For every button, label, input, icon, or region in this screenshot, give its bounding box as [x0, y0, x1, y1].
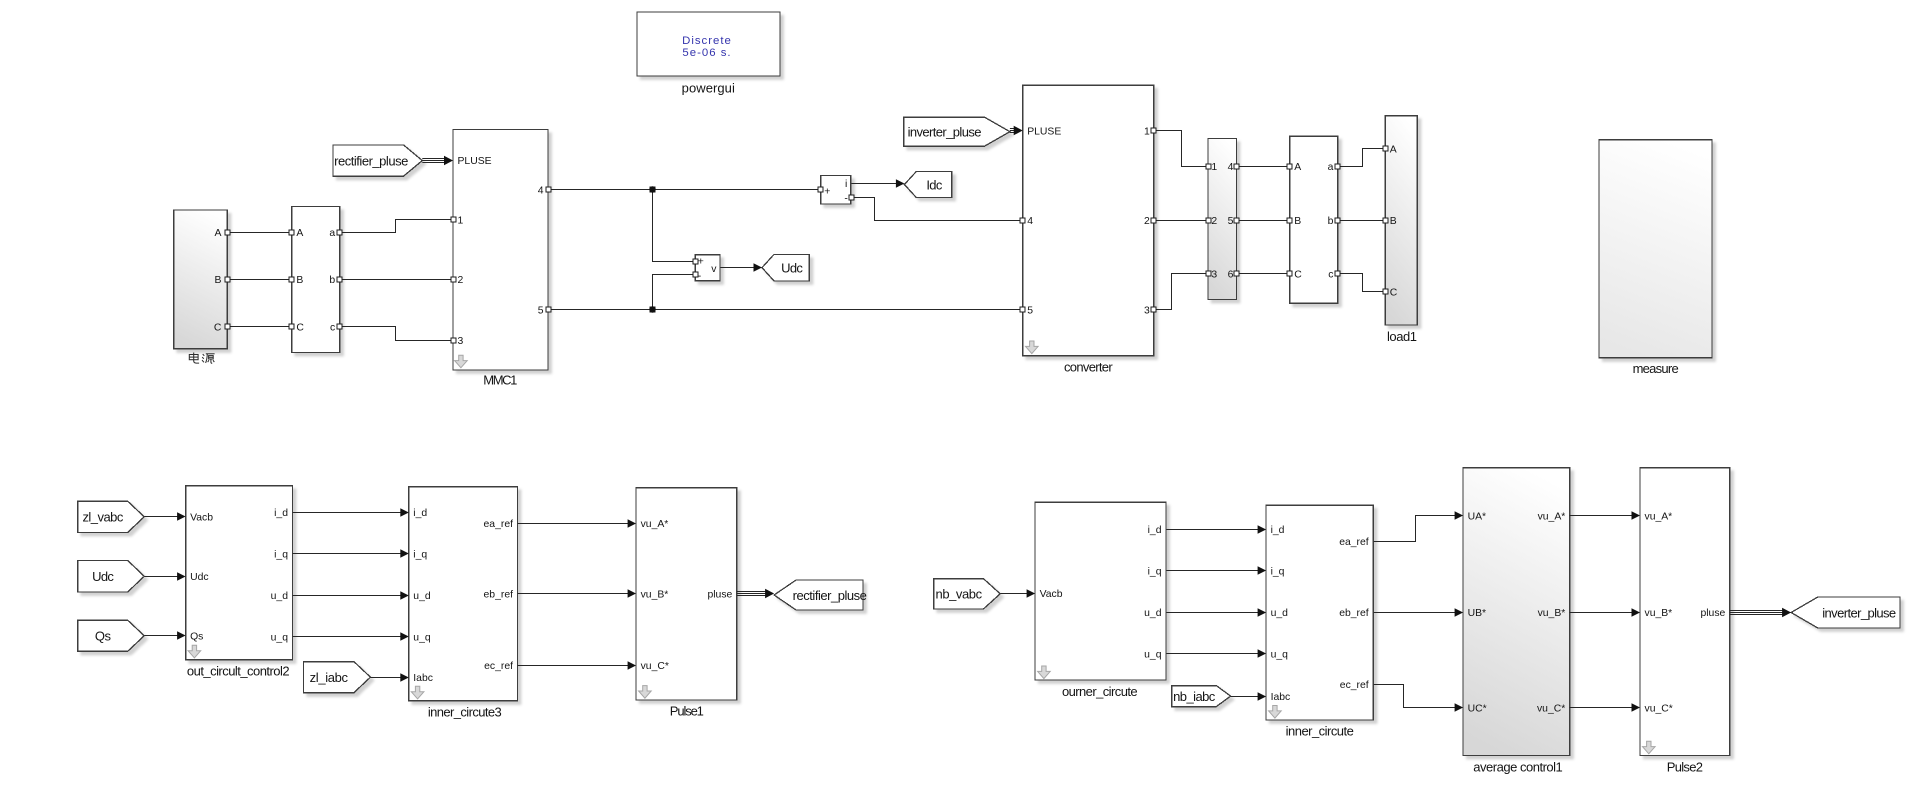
- svg-text:A: A: [1294, 162, 1301, 173]
- svg-text:vu_B*: vu_B*: [641, 590, 669, 601]
- svg-text:u_q: u_q: [271, 632, 289, 643]
- svg-text:C: C: [296, 322, 304, 333]
- svg-text:UA*: UA*: [1468, 511, 1486, 522]
- svg-text:A: A: [296, 228, 303, 239]
- svg-text:i_d: i_d: [1148, 525, 1162, 536]
- svg-text:C: C: [214, 322, 222, 333]
- svg-text:zl_iabc: zl_iabc: [310, 670, 349, 685]
- svg-text:C: C: [1294, 269, 1302, 280]
- svg-text:Iabc: Iabc: [1271, 692, 1291, 703]
- svg-text:PLUSE: PLUSE: [1027, 126, 1061, 137]
- svg-text:3: 3: [1144, 306, 1150, 317]
- svg-text:vu_C*: vu_C*: [1645, 703, 1673, 714]
- svg-text:nb_iabc: nb_iabc: [1173, 689, 1216, 704]
- svg-text:vu_C*: vu_C*: [641, 661, 669, 672]
- svg-text:5: 5: [1228, 216, 1234, 227]
- svg-text:2: 2: [1144, 216, 1150, 227]
- svg-text:i: i: [845, 179, 847, 190]
- svg-text:ourner_circute: ourner_circute: [1062, 684, 1137, 699]
- svg-text:Iabc: Iabc: [413, 673, 433, 684]
- svg-text:5: 5: [1027, 306, 1033, 317]
- svg-text:zl_vabc: zl_vabc: [82, 510, 123, 525]
- svg-text:powergui: powergui: [682, 80, 735, 95]
- svg-text:i_d: i_d: [274, 508, 288, 519]
- svg-text:MMC1: MMC1: [483, 372, 517, 387]
- svg-text:2: 2: [458, 275, 464, 286]
- svg-text:UB*: UB*: [1468, 608, 1486, 619]
- svg-text:v: v: [711, 264, 717, 275]
- svg-text:Qs: Qs: [95, 629, 112, 644]
- svg-text:ec_ref: ec_ref: [1340, 680, 1369, 691]
- svg-text:inner_circute: inner_circute: [1286, 724, 1354, 739]
- svg-text:vu_B*: vu_B*: [1538, 608, 1566, 619]
- svg-text:load1: load1: [1387, 329, 1417, 344]
- svg-text:6: 6: [1228, 269, 1234, 280]
- svg-text:UC*: UC*: [1468, 703, 1487, 714]
- svg-text:rectifier_pluse: rectifier_pluse: [793, 588, 867, 603]
- svg-text:a: a: [329, 228, 335, 239]
- svg-text:c: c: [1328, 269, 1333, 280]
- svg-text:b: b: [1328, 216, 1334, 227]
- svg-text:B: B: [1390, 216, 1397, 227]
- svg-text:Udc: Udc: [92, 569, 114, 584]
- svg-text:inner_circute3: inner_circute3: [428, 704, 502, 719]
- svg-text:ec_ref: ec_ref: [484, 661, 513, 672]
- svg-text:i_d: i_d: [413, 508, 427, 519]
- svg-text:u_q: u_q: [1144, 649, 1162, 660]
- svg-text:Pulse1: Pulse1: [670, 704, 704, 719]
- svg-text:-: -: [698, 271, 701, 282]
- svg-text:vu_A*: vu_A*: [1645, 511, 1673, 522]
- svg-text:Udc: Udc: [781, 261, 803, 276]
- svg-text:Vacb: Vacb: [190, 513, 213, 524]
- svg-text:vu_B*: vu_B*: [1645, 608, 1673, 619]
- svg-text:B: B: [296, 275, 303, 286]
- svg-text:vu_A*: vu_A*: [1538, 511, 1566, 522]
- svg-text:u_d: u_d: [413, 591, 431, 602]
- svg-text:Discrete: Discrete: [682, 35, 732, 47]
- svg-text:b: b: [329, 275, 335, 286]
- svg-text:Udc: Udc: [190, 572, 208, 583]
- svg-text:ea_ref: ea_ref: [1339, 537, 1369, 548]
- svg-text:i_q: i_q: [413, 549, 427, 560]
- svg-text:a: a: [1328, 162, 1334, 173]
- svg-text:u_d: u_d: [1271, 608, 1289, 619]
- svg-text:eb_ref: eb_ref: [1339, 608, 1369, 619]
- svg-text:u_d: u_d: [271, 591, 289, 602]
- svg-text:vu_C*: vu_C*: [1537, 703, 1565, 714]
- svg-text:ea_ref: ea_ref: [484, 519, 514, 530]
- svg-text:i_d: i_d: [1271, 525, 1285, 536]
- svg-text:+: +: [824, 186, 830, 197]
- svg-text:1: 1: [1211, 162, 1217, 173]
- svg-text:Vacb: Vacb: [1040, 589, 1063, 600]
- svg-text:measure: measure: [1633, 361, 1679, 376]
- svg-text:pluse: pluse: [707, 590, 732, 601]
- svg-text:-: -: [844, 193, 847, 204]
- svg-text:1: 1: [458, 216, 464, 227]
- svg-text:i_q: i_q: [1148, 566, 1162, 577]
- svg-text:PLUSE: PLUSE: [458, 156, 492, 167]
- svg-text:Idc: Idc: [926, 177, 943, 192]
- svg-text:u_d: u_d: [1144, 608, 1162, 619]
- svg-text:i_q: i_q: [274, 549, 288, 560]
- svg-text:inverter_pluse: inverter_pluse: [1822, 605, 1896, 620]
- svg-text:4: 4: [1228, 162, 1234, 173]
- svg-text:u_q: u_q: [1271, 649, 1289, 660]
- svg-text:4: 4: [538, 185, 544, 196]
- svg-text:c: c: [330, 322, 335, 333]
- svg-text:C: C: [1390, 287, 1398, 298]
- svg-text:3: 3: [458, 336, 464, 347]
- svg-text:u_q: u_q: [413, 632, 431, 643]
- svg-text:out_circult_control2: out_circult_control2: [187, 663, 289, 678]
- svg-text:2: 2: [1211, 216, 1217, 227]
- svg-text:rectifier_pluse: rectifier_pluse: [334, 153, 408, 168]
- svg-text:i_q: i_q: [1271, 566, 1285, 577]
- svg-text:Qs: Qs: [190, 632, 203, 643]
- svg-text:nb_vabc: nb_vabc: [936, 587, 983, 602]
- svg-text:converter: converter: [1064, 360, 1113, 375]
- svg-text:3: 3: [1211, 269, 1217, 280]
- svg-text:5e-06 s.: 5e-06 s.: [682, 47, 731, 59]
- svg-text:1: 1: [1144, 126, 1150, 137]
- svg-text:B: B: [1294, 216, 1301, 227]
- svg-text:vu_A*: vu_A*: [641, 519, 669, 530]
- svg-text:inverter_pluse: inverter_pluse: [908, 125, 982, 140]
- svg-text:A: A: [214, 228, 221, 239]
- svg-text:pluse: pluse: [1700, 608, 1725, 619]
- svg-text:average control1: average control1: [1473, 759, 1562, 774]
- svg-text:+: +: [698, 256, 704, 267]
- svg-text:B: B: [214, 275, 221, 286]
- svg-text:eb_ref: eb_ref: [484, 590, 514, 601]
- svg-text:4: 4: [1027, 216, 1033, 227]
- svg-text:Pulse2: Pulse2: [1667, 759, 1703, 774]
- svg-text:A: A: [1390, 144, 1397, 155]
- svg-text:5: 5: [538, 306, 544, 317]
